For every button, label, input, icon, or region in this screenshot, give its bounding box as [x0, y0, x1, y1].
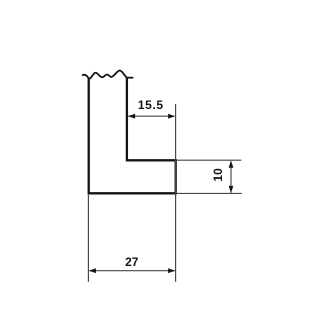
dimension line 10: [229, 161, 234, 193]
extension line top horizontal: [177, 159, 242, 161]
extension line left vertical: [87, 195, 89, 282]
svg-text:15.5: 15.5: [138, 98, 164, 112]
svg-text:27: 27: [125, 255, 139, 269]
break line (wavy): [83, 70, 133, 78]
svg-text:10: 10: [211, 168, 225, 182]
extension line bottom horizontal: [177, 192, 242, 194]
label 10 (rotated): [211, 168, 225, 182]
extension line right vertical: [175, 104, 177, 282]
label 15.5: [138, 98, 164, 112]
dimension line 27: [89, 268, 175, 273]
dimension line 15.5: [128, 114, 175, 119]
profile outline (L-shape): [89, 78, 176, 194]
label 27: [125, 255, 139, 269]
